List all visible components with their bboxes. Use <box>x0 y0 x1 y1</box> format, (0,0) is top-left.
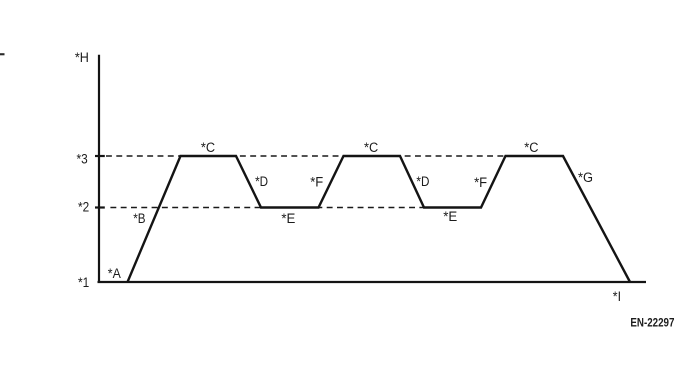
svg-text:*3: *3 <box>77 152 88 167</box>
svg-text:*G: *G <box>578 170 593 185</box>
svg-text:*F: *F <box>474 175 487 190</box>
dashed reference line level *3 <box>106 155 505 157</box>
svg-text:*F: *F <box>310 174 323 189</box>
svg-text:*I: *I <box>613 289 621 304</box>
tick at level *2 <box>95 206 105 208</box>
edge dash top-left <box>0 53 5 55</box>
svg-text:*B: *B <box>133 211 145 226</box>
tick at level *3 <box>95 155 105 157</box>
svg-text:*E: *E <box>281 211 295 226</box>
svg-text:EN-22297: EN-22297 <box>630 316 674 330</box>
x-axis baseline level *1 <box>98 281 647 283</box>
y-axis <box>98 55 100 283</box>
svg-text:*D: *D <box>416 174 429 189</box>
svg-text:*C: *C <box>524 140 538 155</box>
dashed reference line level *2 <box>110 207 481 209</box>
svg-text:*A: *A <box>108 266 121 281</box>
svg-text:*1: *1 <box>78 275 89 290</box>
svg-text:*E: *E <box>443 209 457 224</box>
temperature profile polyline <box>128 156 631 282</box>
svg-text:*C: *C <box>364 140 378 155</box>
svg-text:*H: *H <box>75 50 89 65</box>
svg-text:*D: *D <box>255 174 268 189</box>
svg-text:*C: *C <box>201 140 215 155</box>
svg-text:*2: *2 <box>78 200 89 215</box>
